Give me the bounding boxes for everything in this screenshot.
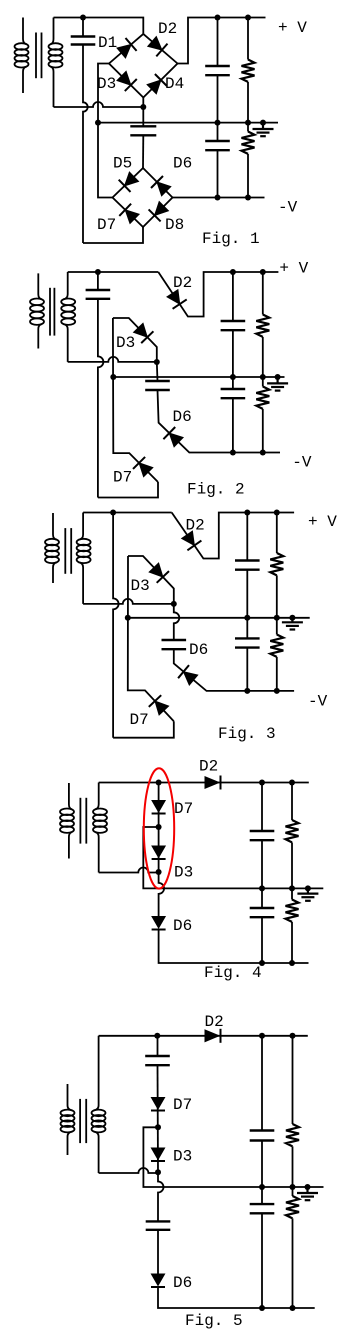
svg-text:D6: D6 <box>173 155 192 173</box>
svg-text:D7: D7 <box>174 800 193 818</box>
svg-text:D3: D3 <box>116 334 135 352</box>
svg-text:D7: D7 <box>97 216 116 234</box>
svg-text:Fig. 5: Fig. 5 <box>185 1312 243 1330</box>
svg-text:D4: D4 <box>165 75 184 93</box>
svg-text:D7: D7 <box>113 469 132 487</box>
svg-text:D3: D3 <box>97 75 116 93</box>
svg-text:D3: D3 <box>173 1148 192 1166</box>
svg-text:D2: D2 <box>173 274 192 292</box>
svg-text:+ V: + V <box>308 513 337 531</box>
svg-text:D7: D7 <box>173 1096 192 1114</box>
svg-text:D2: D2 <box>199 758 218 776</box>
svg-text:D2: D2 <box>205 1013 224 1031</box>
svg-text:Fig. 4: Fig. 4 <box>204 964 262 982</box>
svg-text:-V: -V <box>308 693 328 711</box>
svg-text:D8: D8 <box>165 216 184 234</box>
svg-text:D6: D6 <box>173 408 192 426</box>
svg-text:Fig. 2: Fig. 2 <box>187 481 245 499</box>
svg-text:-V: -V <box>278 199 298 217</box>
svg-text:Fig. 3: Fig. 3 <box>218 725 276 743</box>
svg-text:D7: D7 <box>130 711 149 729</box>
svg-text:D1: D1 <box>98 34 117 52</box>
svg-text:-V: -V <box>292 453 312 471</box>
svg-text:D2: D2 <box>158 20 177 38</box>
svg-text:D6: D6 <box>173 1274 192 1292</box>
svg-text:D3: D3 <box>174 864 193 882</box>
svg-text:D3: D3 <box>131 577 150 595</box>
svg-text:D2: D2 <box>186 517 205 535</box>
svg-text:Fig. 1: Fig. 1 <box>202 230 260 248</box>
svg-text:+ V: + V <box>279 260 308 278</box>
svg-text:D6: D6 <box>173 917 192 935</box>
svg-text:+ V: + V <box>278 19 307 37</box>
svg-text:D5: D5 <box>113 155 132 173</box>
svg-text:D6: D6 <box>189 641 208 659</box>
